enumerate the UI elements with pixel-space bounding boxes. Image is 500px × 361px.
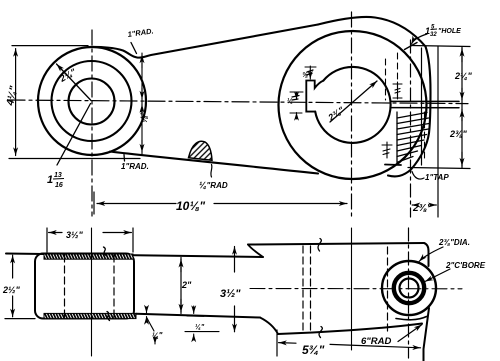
lug right edge: [426, 47, 431, 134]
svg-text:5¾": 5¾": [302, 343, 325, 357]
leader 2 C'BORE: [425, 269, 450, 282]
X mark at bolt hole top: [405, 43, 418, 50]
break mark hub bottom: [107, 312, 110, 321]
lug hidden line: [387, 247, 389, 333]
svg-text:2": 2": [181, 280, 192, 290]
svg-text:2⅜"DIA.: 2⅜"DIA.: [438, 238, 470, 247]
dimension 3 1/2 boss height: [234, 247, 236, 332]
plate top line: [6, 254, 263, 258]
leader 6 RAD: [398, 325, 422, 342]
small 1/4 dim cluster left: [147, 307, 156, 344]
svg-text:13: 13: [54, 172, 62, 179]
boss top line: [248, 243, 424, 245]
clamp bolt vertical centerline: [410, 40, 412, 217]
small end middle circle: [52, 61, 132, 141]
svg-text:1"TAP: 1"TAP: [425, 173, 449, 182]
hub top hatch band: [44, 254, 133, 259]
right dims: bottom extension line: [408, 168, 470, 169]
lug bottom edge: [388, 133, 429, 176]
hidden line bore edge upper: [385, 59, 387, 100]
svg-text:3½": 3½": [66, 230, 84, 240]
dimension 4 1/4 left: top extension: [12, 45, 88, 47]
dimension 2 plate thickness: [180, 258, 182, 314]
boss keyway hidden lines: [302, 246, 304, 332]
tap section hatching: [397, 113, 429, 163]
break mark boss top: [318, 239, 321, 252]
svg-text:"HOLE: "HOLE: [438, 28, 461, 35]
bolt centerline bottom view: [408, 228, 410, 358]
dimension 10 1/8 line: [97, 203, 347, 205]
svg-text:2¼": 2¼": [454, 71, 473, 81]
svg-text:1"RAD.: 1"RAD.: [121, 162, 149, 171]
small end vertical centerline: [91, 30, 93, 216]
small end outer circle: [38, 47, 146, 155]
big end vertical centerline: [351, 12, 353, 218]
lug top arc: [318, 17, 426, 47]
right edge top corner: [424, 243, 429, 266]
big end bore with keyway: [315, 67, 390, 143]
lug lower transition curve: [396, 317, 427, 320]
plate bottom line: [136, 314, 260, 318]
svg-text:¼"RAD: ¼"RAD: [199, 180, 228, 190]
right edge lower: [424, 308, 430, 361]
hub bottom extension line: [5, 318, 35, 320]
boss bottom fillet: [260, 318, 278, 335]
leader 1 inch TAP: [412, 172, 424, 180]
keyway notch: [306, 81, 323, 112]
hub hidden bore lines: [64, 255, 66, 317]
tapped hole right wall hidden: [424, 112, 426, 160]
small dim right of bore: [393, 82, 402, 98]
dimension 10 1/8: left extension tick: [93, 192, 95, 214]
svg-text:¼: ¼: [287, 98, 293, 105]
small end radius leader 2 3/4: [57, 64, 92, 101]
label 1 RAD top with leader: [131, 43, 137, 54]
right extension to bottom view: [437, 47, 439, 218]
hub bottom hatch band: [44, 313, 136, 318]
right dim line 2 1/4 and 2 3/8: [461, 47, 463, 168]
dimension 7/8 vertical at arm: [141, 53, 143, 154]
dimension 2 1/2 left: [12, 255, 14, 317]
right dims: top extension line: [411, 46, 470, 47]
break mark boss bottom: [319, 327, 322, 338]
svg-text:16: 16: [55, 182, 63, 189]
boss bottom line 6in rad: [278, 324, 422, 335]
leader 2 3/8 DIA: [419, 247, 443, 262]
big end outer circle: [279, 31, 427, 179]
small end centerline bottom view: [91, 228, 93, 356]
dimension 2 3/8 below lug: [412, 204, 436, 206]
dimension 5 3/4: [277, 330, 421, 356]
small end bore circle: [69, 79, 115, 125]
svg-text:2½": 2½": [2, 285, 21, 295]
break mark hub top: [104, 247, 107, 256]
boss top fillet: [248, 245, 263, 258]
small hub rounded rect: [35, 254, 134, 319]
svg-text:32: 32: [430, 32, 437, 38]
svg-text:⅜: ⅜: [302, 72, 308, 79]
clamp slot top line: [391, 100, 460, 102]
hidden line hole wall left upper: [397, 53, 399, 100]
keyway dim scribbles: [292, 70, 313, 100]
feature line right of lug: [421, 48, 423, 165]
section lens on arm bottom edge: [189, 141, 213, 160]
svg-text:10⅛": 10⅛": [176, 199, 205, 213]
svg-text:¼": ¼": [195, 324, 205, 331]
dimension 3 1/2 top: [47, 228, 133, 252]
dimension 4 1/4 left: bottom extension: [9, 158, 140, 160]
dimension 4 1/4 left: dim line: [15, 49, 17, 156]
small 1/4 dim cluster right: [185, 306, 219, 340]
keyway small dim left: [290, 92, 303, 119]
leader for 1 5/32 hole: [412, 34, 428, 44]
fraction bars: [53, 29, 437, 179]
label 1 RAD bottom leader: [123, 155, 126, 162]
svg-text:6"RAD: 6"RAD: [361, 336, 392, 347]
bolt boss circle: [382, 261, 436, 315]
arm top edge: [88, 25, 318, 58]
big bore radius leader 2 3/8: [330, 81, 377, 122]
svg-text:2⅜": 2⅜": [412, 203, 432, 214]
tapped hole left wall: [396, 112, 398, 164]
svg-text:¼": ¼": [152, 331, 163, 340]
svg-text:3½": 3½": [220, 288, 241, 300]
bolt horizontal centerline bottom view: [250, 288, 462, 290]
keyway small dim above: [305, 66, 316, 79]
counterbore ring: [394, 273, 424, 303]
bolt hole circle: [400, 279, 419, 298]
leader 1/4 RAD: [211, 165, 212, 178]
bore leader 1 13/16: [57, 104, 91, 166]
svg-text:2⅜": 2⅜": [449, 129, 468, 139]
small dim left of tap: [382, 142, 392, 158]
big end centerline bottom view: [351, 228, 353, 350]
svg-text:⅞": ⅞": [139, 110, 149, 123]
svg-text:2"C'BORE: 2"C'BORE: [445, 261, 486, 270]
clamp slot bottom line: [391, 107, 460, 109]
arm bottom edge: [110, 152, 318, 174]
horizontal centerline (lever axis): [8, 100, 468, 104]
tapped hole bottom: [385, 164, 401, 167]
svg-text:1: 1: [47, 174, 53, 186]
